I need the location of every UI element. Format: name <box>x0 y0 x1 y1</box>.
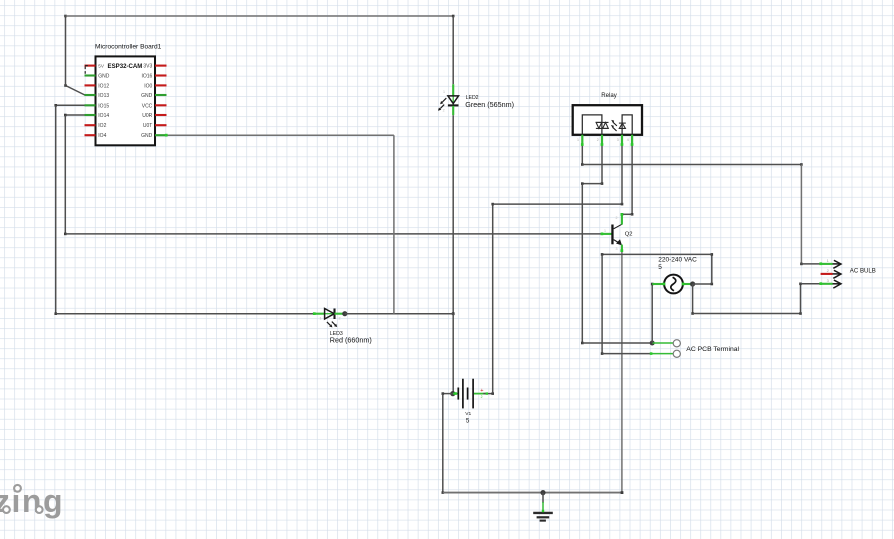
pin VCC (right 5) <box>142 103 167 109</box>
wire AC right to corner <box>693 283 714 286</box>
svg-text:1: 1 <box>320 317 322 321</box>
net green segment battery plus <box>474 393 488 395</box>
wire AC source left leg down <box>651 283 654 343</box>
wire vertical x=492.7 up <box>491 203 494 394</box>
svg-text:3: 3 <box>617 138 619 142</box>
wire through LED3 <box>324 313 334 315</box>
svg-text:AC PCB Terminal: AC PCB Terminal <box>686 346 739 353</box>
pin IO15 (left 5) <box>85 103 110 109</box>
relay pin 3 <box>617 135 622 145</box>
svg-text:2: 2 <box>616 216 618 220</box>
svg-text:5: 5 <box>466 418 470 425</box>
wire top rail y=16 <box>66 15 455 18</box>
wire vertical x=582.3 down to terminal rail <box>581 184 584 345</box>
wire IO14 left stub run <box>64 114 85 117</box>
label V1 <box>465 411 471 425</box>
net green segment AC source right <box>683 283 693 285</box>
relay pin 4 <box>627 135 632 145</box>
relay internal triac loop <box>582 115 602 135</box>
wire IO15 left stub run <box>54 104 84 107</box>
svg-text:2: 2 <box>597 138 599 142</box>
svg-text:3: 3 <box>616 247 618 251</box>
pin endpoint Q2 collector wire <box>621 213 624 216</box>
wire Q2 base rail y=233.9 <box>65 233 602 235</box>
AC BULB pin 3 arrow <box>801 278 842 288</box>
wire vertical x=65.3 <box>64 115 67 235</box>
label Relay <box>601 92 618 99</box>
relay pin 2 <box>597 135 602 145</box>
wire relay pin2 down <box>601 145 604 185</box>
svg-text:IO14: IO14 <box>98 113 109 119</box>
battery junction node <box>450 391 455 396</box>
pin endpoint chip GND wire <box>165 134 168 137</box>
wire chip GND right pin to x=393.9 <box>167 134 394 136</box>
svg-text:Relay: Relay <box>601 92 618 99</box>
wire horizontal y=313.7 to LED3 anode <box>56 313 314 315</box>
wire vertical x=453 from top rail to LED2 anode <box>452 16 454 84</box>
svg-text:IO0: IO0 <box>144 83 152 89</box>
pin number 2 at Q2 collector <box>616 216 618 220</box>
svg-text:2: 2 <box>339 317 341 321</box>
svg-text:220-240 VAC: 220-240 VAC <box>658 256 697 263</box>
svg-text:GND: GND <box>98 74 110 80</box>
label 220-240 VAC <box>658 256 697 271</box>
wire pin4 jog left to Q2 collector <box>621 213 633 216</box>
AC BULB pin 1 arrow <box>801 258 842 268</box>
pin IO12 (left 3) <box>85 83 110 89</box>
label LED3 <box>330 331 372 345</box>
svg-text:U0R: U0R <box>142 113 152 119</box>
wire vertical x=393.9 GND drop <box>393 135 395 314</box>
watermark fritzing logo <box>0 483 64 519</box>
svg-text:GND: GND <box>141 93 153 99</box>
wire vertical x=55.7 <box>54 105 57 315</box>
battery V1 <box>458 379 473 409</box>
svg-text:VCC: VCC <box>142 103 153 109</box>
junction node AC source right <box>690 281 695 286</box>
wire vertical x=622 up to relay pin3 <box>621 145 623 204</box>
net green segment to terminal 1 <box>652 342 673 344</box>
svg-text:Q2: Q2 <box>625 231 633 237</box>
svg-text:zing: zing <box>0 483 64 519</box>
wire vertical x=800.5 up to bulb pin3 <box>799 283 802 314</box>
net green segment battery minus <box>453 393 458 395</box>
pin marks LED2 <box>443 90 445 112</box>
wire horizontal y=342.3 to junction <box>582 342 652 344</box>
wire horizontal y=353.6 to terminal 2 <box>602 353 650 355</box>
svg-text:AC BULB: AC BULB <box>850 268 876 275</box>
pin GND (right 8) <box>141 133 166 139</box>
net green segment below LED2 <box>452 106 454 115</box>
pin IO0 (right 3) <box>144 83 166 89</box>
relay opto LED arrows <box>611 120 617 131</box>
wire vertical x=801.4 down to bulb pin1 <box>800 165 803 266</box>
junction node LED3 cathode <box>342 311 347 316</box>
pin endpoint ground stem <box>542 510 544 512</box>
wire IO13 to LED2 top: diagonal segment <box>64 84 85 95</box>
transistor Q2 <box>611 224 622 245</box>
wire vertical x=453 LED2 cathode down to LED3 tee <box>452 115 454 314</box>
pin endpoint terminal 2 wire <box>650 352 653 355</box>
wire horizontal y=254.4 left <box>601 253 712 256</box>
net green segment Q2 emitter <box>621 245 623 252</box>
wire Q2 emitter down to ground bus <box>621 251 623 492</box>
wire vertical x=453 down to battery junction <box>452 314 454 394</box>
pin GND (right 4) <box>141 93 166 99</box>
pin IO4 (left 8) <box>85 133 107 139</box>
LED3 symbol <box>325 309 338 328</box>
pin number 2 LED3 cathode <box>339 317 341 321</box>
svg-text:1: 1 <box>443 90 445 94</box>
svg-text:Green (565nm): Green (565nm) <box>465 100 514 109</box>
net green segment right of LED3 <box>335 313 345 315</box>
wire through LED2 <box>452 96 454 106</box>
wire relay pin1 down <box>581 145 584 166</box>
label Microcontroller Board1 <box>95 43 162 50</box>
pin endpoint battery plus wire <box>486 392 488 394</box>
pin IO14 (left 6) <box>85 113 110 119</box>
pin IO2 (left 7) <box>85 123 107 129</box>
label AC BULB <box>850 268 876 275</box>
pin endpoint AC source left <box>663 283 666 286</box>
wire ground bus y=492.6 <box>443 491 624 494</box>
svg-text:4: 4 <box>627 138 629 142</box>
wire horizontal y=204.1 to relay pin3 <box>493 203 624 206</box>
relay pin 1 <box>577 135 582 145</box>
svg-text:3V3: 3V3 <box>143 64 152 70</box>
wire battery minus to left corner <box>442 392 453 395</box>
AC PCB terminal circle 2 <box>673 350 680 357</box>
wire vertical x=602.1 down to terminal 2 rail <box>601 254 604 355</box>
AC BULB pin 2 arrow (unconnected) <box>821 268 841 278</box>
svg-text:IO16: IO16 <box>141 74 152 80</box>
pin mark battery plus <box>481 395 483 399</box>
wire relay pin4 down <box>631 145 634 216</box>
pin endpoint battery minus wire <box>454 392 457 395</box>
AC source V2 circle <box>664 275 683 294</box>
pin GND (left 2) <box>85 74 110 80</box>
pin U0R (right 6) <box>142 113 166 119</box>
pin number 1 LED3 anode <box>320 317 322 321</box>
pin 3V3 (right 1) <box>143 64 166 70</box>
pin endpoint LED3 anode wire <box>313 312 316 315</box>
svg-text:ESP32-CAM: ESP32-CAM <box>108 63 143 70</box>
pin endpoint AC source right <box>682 283 685 286</box>
svg-text:Red (660nm): Red (660nm) <box>330 336 372 345</box>
svg-text:IO12: IO12 <box>98 83 109 89</box>
label battery plus sign <box>480 388 483 394</box>
svg-text:1: 1 <box>577 138 579 142</box>
svg-text:V1: V1 <box>465 411 471 417</box>
net green segment to terminal 2 <box>650 353 673 355</box>
svg-text:5: 5 <box>658 264 662 271</box>
LED2 symbol <box>438 96 459 111</box>
relay photodiode symbol <box>619 123 626 128</box>
junction node ground stem <box>540 490 545 495</box>
wire vertical x=442.8 down <box>442 394 445 494</box>
wire pin2 jog left <box>581 182 602 185</box>
pin endpoint relay pin 1 <box>581 143 584 146</box>
svg-text:1: 1 <box>604 229 606 233</box>
svg-text:IO4: IO4 <box>98 133 106 139</box>
net green segment left of LED3 <box>314 313 325 315</box>
pin endpoint relay pin 3 <box>621 143 624 146</box>
ratsnest dashed 5V-GND <box>85 66 89 76</box>
ground symbol <box>533 493 553 521</box>
relay triac symbol <box>596 122 609 128</box>
wire horizontal y=313.5 right <box>693 312 802 315</box>
svg-text:U0T: U0T <box>143 123 152 129</box>
wire vertical x=65.5 up to top rail <box>64 15 67 86</box>
pin endpoint Q2 emitter wire <box>621 249 624 252</box>
pin IO16 (right 2) <box>141 74 166 80</box>
pin U0T (right 7) <box>143 123 167 129</box>
AC PCB terminal circle 1 <box>673 340 680 347</box>
svg-text:IO15: IO15 <box>98 103 109 109</box>
wire vertical x=711.8 up <box>711 253 714 284</box>
wire LED3 cathode to x=453 vertical <box>345 313 453 315</box>
pin number 3 at Q2 emitter <box>616 247 618 251</box>
svg-text:2: 2 <box>443 108 445 112</box>
junction node terminal 1 <box>650 341 655 346</box>
svg-text:GND: GND <box>141 133 153 139</box>
pin 5V (left 1) <box>85 64 105 69</box>
net green segment Q2 base <box>602 233 612 235</box>
pin number 1 at Q2 base <box>604 229 606 233</box>
svg-text:2: 2 <box>481 395 483 399</box>
net green segment AC source left <box>652 283 664 285</box>
svg-text:5V: 5V <box>98 64 105 69</box>
pin endpoint Q2 base wire <box>601 233 604 236</box>
net green segment Q2 collector <box>621 214 623 224</box>
svg-text:IO2: IO2 <box>98 123 106 129</box>
svg-text:IO13: IO13 <box>98 93 109 99</box>
relay internal diode loop <box>622 115 632 135</box>
label Q2 <box>625 231 633 237</box>
net green segment above LED2 <box>452 84 454 95</box>
junction at x=453 y=313.7 <box>452 312 455 315</box>
pin endpoint relay pin 2 <box>601 143 604 146</box>
label ESP32-CAM <box>108 63 143 70</box>
svg-text:Microcontroller Board1: Microcontroller Board1 <box>95 43 162 50</box>
wire junction down from AC right <box>691 284 694 315</box>
microcontroller board U1 body <box>96 56 156 145</box>
wire battery plus to corner <box>483 392 494 395</box>
pin IO13 (left 4) <box>85 93 110 99</box>
relay body <box>573 105 642 135</box>
wire y=164.5 rail to right <box>582 163 802 166</box>
label LED2 <box>465 95 514 109</box>
pin endpoint relay pin 4 <box>631 143 634 146</box>
label AC PCB Terminal <box>686 346 739 353</box>
